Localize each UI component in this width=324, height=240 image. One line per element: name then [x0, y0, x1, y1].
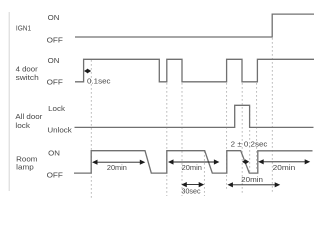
svg-text:ON: ON — [48, 56, 60, 65]
svg-text:IGN1: IGN1 — [16, 23, 31, 32]
svg-text:4 door: 4 door — [16, 64, 39, 73]
dashed line x=256.6 (door open) — [256, 83, 258, 170]
arrow 20min #3 right — [258, 159, 310, 164]
svg-text:ON: ON — [48, 149, 60, 158]
svg-text:lamp: lamp — [16, 163, 34, 172]
arrow 30sec — [181, 182, 204, 187]
arrow 20min #4 bottom — [227, 182, 280, 187]
svg-text:lock: lock — [15, 121, 30, 130]
signal all-door-lock waveform — [75, 105, 314, 127]
svg-text:0.1sec: 0.1sec — [87, 76, 111, 85]
arrow 20min #1 — [92, 160, 145, 165]
svg-text:2 ± 0.2sec: 2 ± 0.2sec — [231, 140, 268, 149]
signal 4-door-switch waveform — [75, 59, 314, 82]
svg-text:30sec: 30sec — [182, 186, 201, 195]
marker 0.1sec diamond — [84, 69, 91, 74]
arrow 20min #2 — [168, 159, 219, 164]
svg-text:All door: All door — [15, 112, 42, 121]
svg-text:20min: 20min — [273, 163, 296, 172]
svg-text:20min: 20min — [241, 175, 263, 184]
svg-text:20min: 20min — [182, 163, 202, 172]
dashed line x=226.6 (door open) — [226, 83, 228, 190]
signal IGN1 waveform — [75, 14, 314, 37]
svg-text:OFF: OFF — [47, 35, 64, 44]
dashed line x=91.3 (0.1sec lamp-on event) — [90, 60, 92, 199]
svg-text:Lock: Lock — [48, 104, 65, 113]
svg-text:OFF: OFF — [47, 170, 64, 179]
dashed line x=272.3 (IGN1 on) — [271, 38, 273, 194]
svg-text:OFF: OFF — [47, 78, 64, 87]
svg-text:Unlock: Unlock — [47, 126, 72, 135]
marker 2±0.2sec diamond — [242, 159, 249, 164]
svg-text:20min: 20min — [107, 163, 127, 172]
svg-text:switch: switch — [16, 73, 39, 82]
dashed line x=249.7 (lock end / lamp out) — [249, 106, 251, 173]
dashed line x=242.2 (door close) — [241, 83, 243, 195]
dashed line x=204.4 (fade start) — [203, 151, 205, 196]
dashed line x=182 (door close) — [181, 83, 183, 196]
left table border — [8, 12, 10, 191]
signal room-lamp waveform — [74, 151, 313, 173]
dashed line x=166.8 (door reopen) — [166, 83, 168, 196]
svg-text:ON: ON — [48, 13, 60, 22]
